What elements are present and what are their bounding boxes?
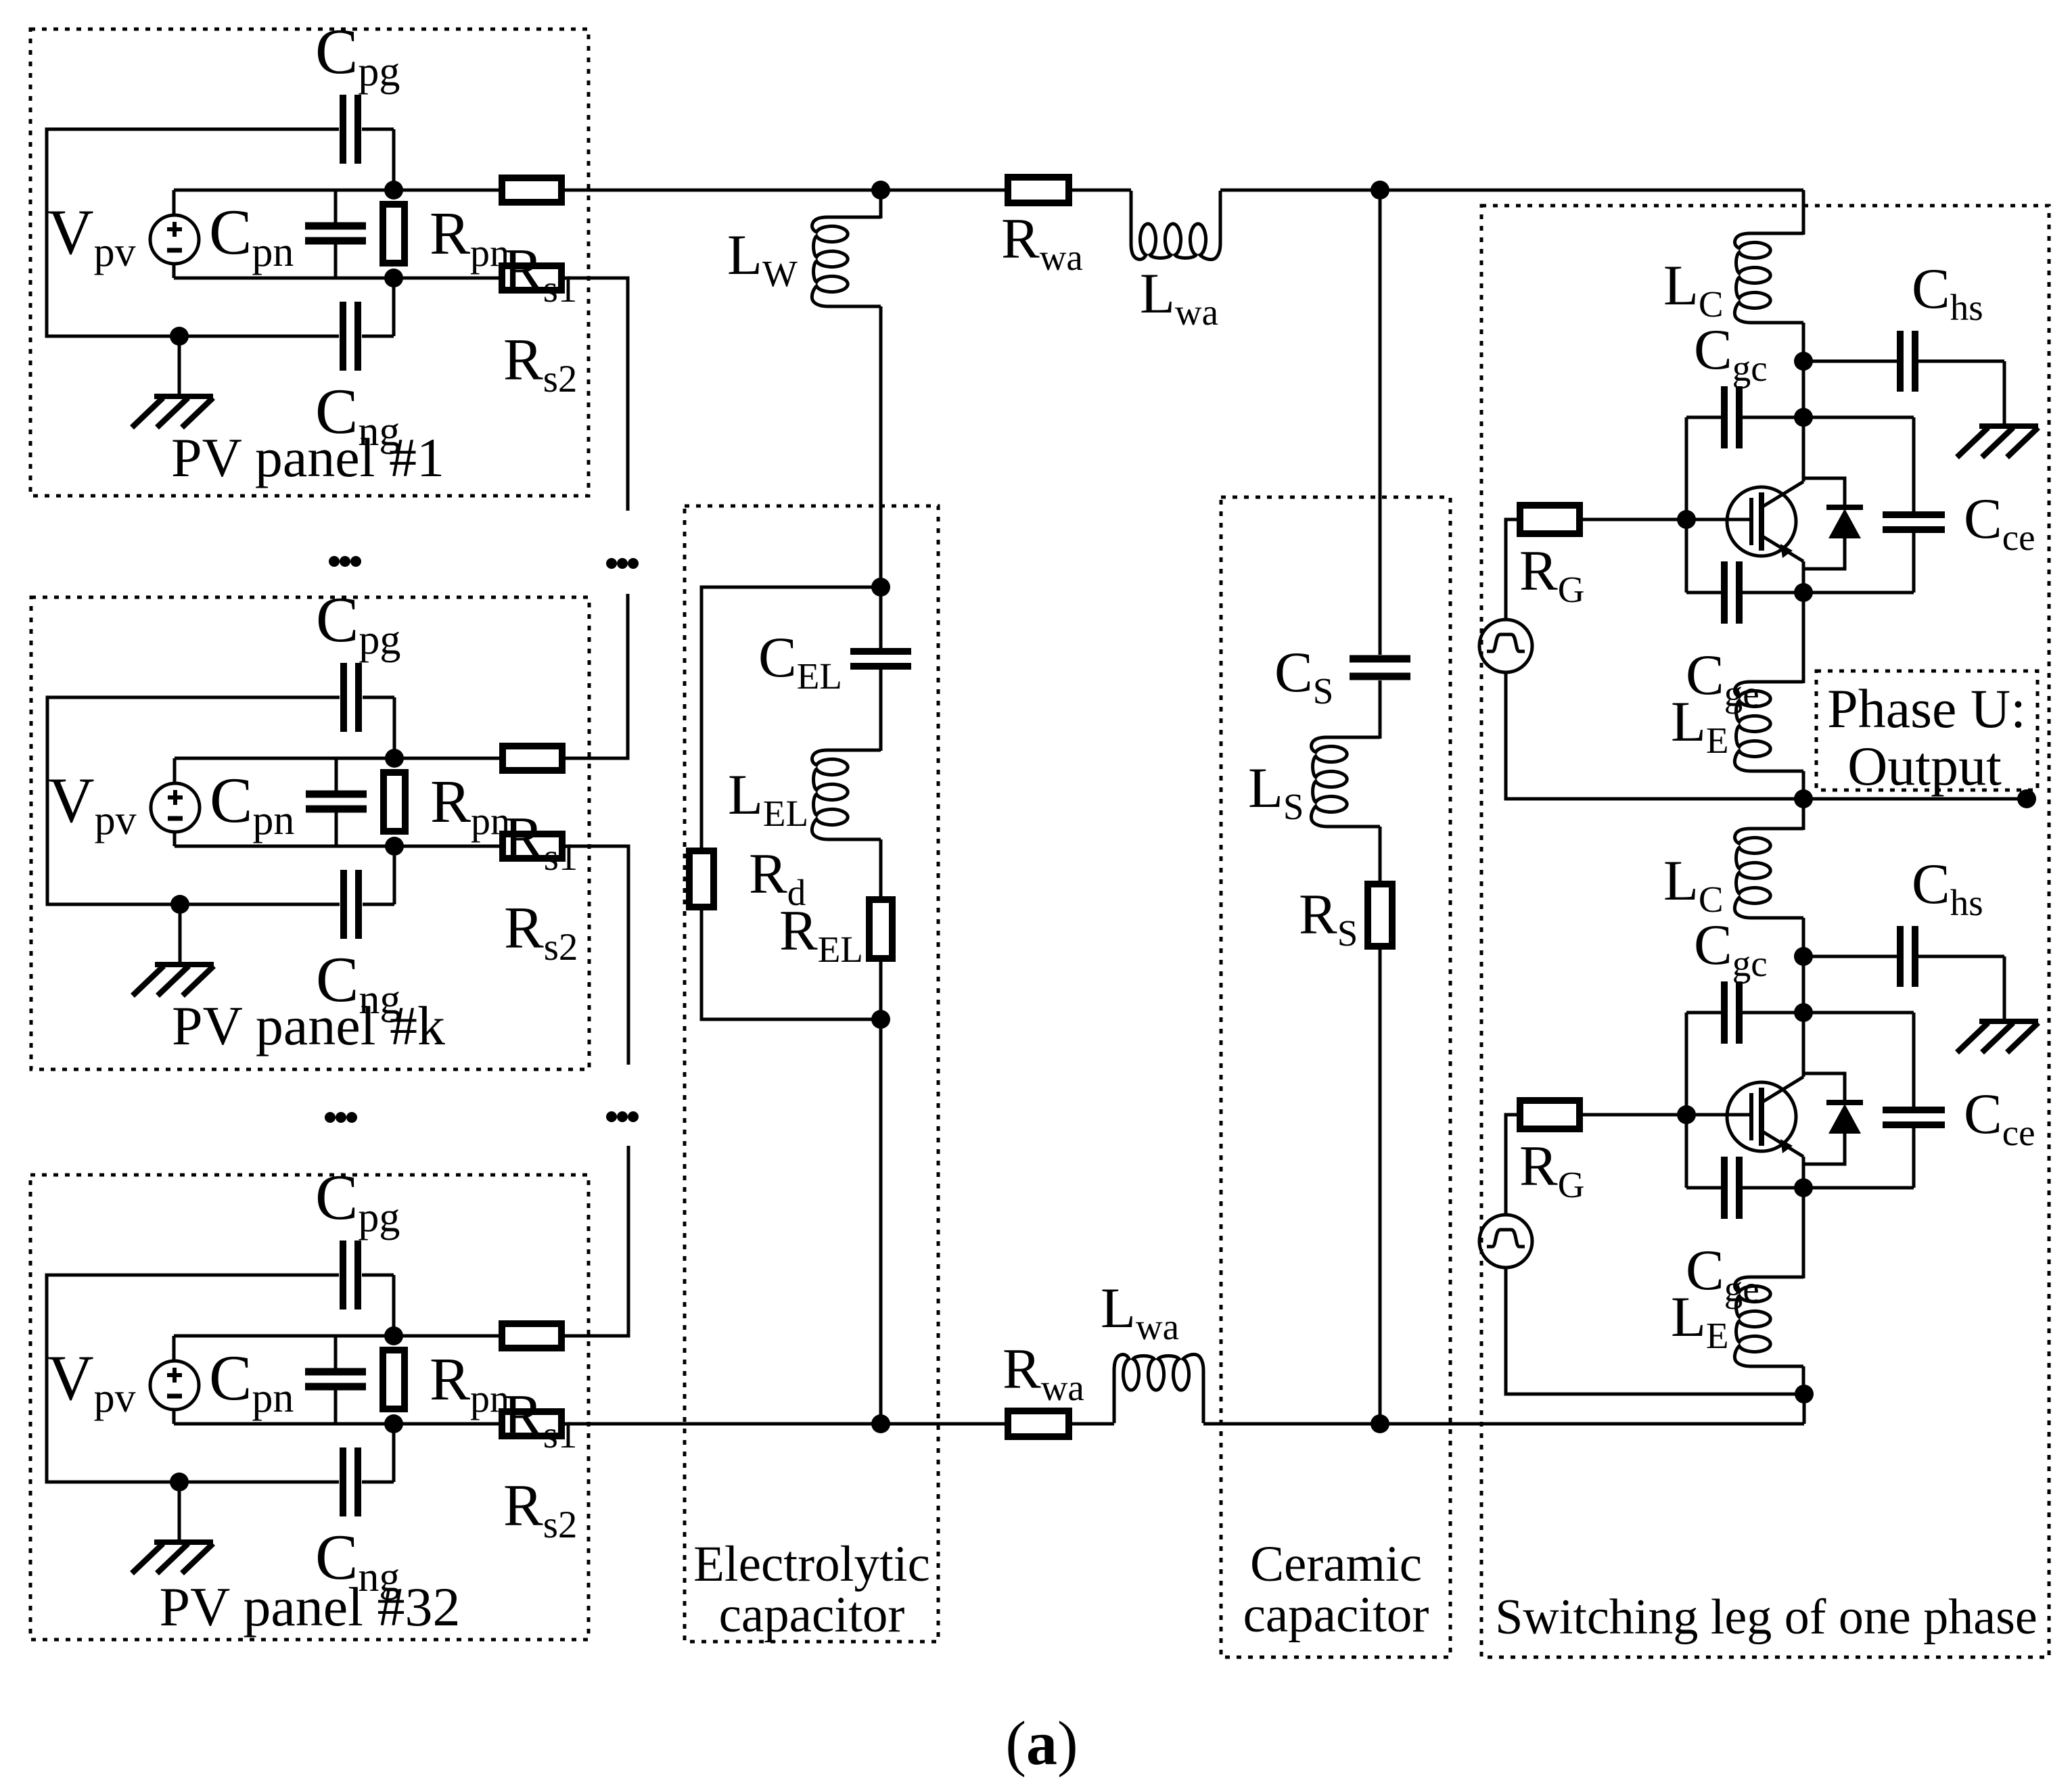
diode freewheel lower (1803, 1073, 1863, 1164)
label Rs2 PV panel #32 (503, 1473, 577, 1546)
wire ceramic top (1379, 190, 1382, 655)
capacitor Cpg PV panel #1 (343, 95, 358, 164)
wire Vpv left branch PV panel #32 (172, 1336, 176, 1424)
label phase U line2 (1847, 735, 2002, 797)
capacitor Chs lower (1900, 926, 1915, 987)
wire cell top side upper (1686, 416, 1914, 419)
label Chs lower (1912, 852, 1983, 923)
inductor LC upper (1734, 233, 1803, 323)
wire top junction to Lw (879, 190, 883, 218)
wire RG left to source lower (1506, 1115, 1520, 1215)
wire output junction to Lc lower (1802, 799, 1805, 830)
wire LE to return junction lower (1802, 1366, 1805, 1394)
label Cpn PV panel #32 (209, 1342, 294, 1421)
voltage source Vpv PV panel #k (151, 783, 200, 832)
ground Chs upper (1957, 426, 2038, 457)
label CEL (758, 626, 842, 697)
node positive rail junction PV panel #1 (384, 181, 403, 200)
svg-text:Phase U:: Phase U: (1827, 678, 2026, 739)
label LE lower (1671, 1285, 1729, 1356)
ground PV panel #32 (132, 1542, 213, 1573)
label Lw (727, 223, 798, 294)
wire chain to panel32 Rs1 (562, 1146, 628, 1336)
inductor Lwa top (1131, 191, 1220, 260)
label Cge lower (1686, 1238, 1759, 1309)
wire Chs ground stem lower (2003, 956, 2006, 1021)
wire panel1 Rs2 to chain (562, 278, 628, 511)
resistor Rs2 PV panel #1 (502, 266, 561, 290)
wire cell bottom side lower (1686, 1186, 1914, 1190)
svg-text:capacitor: capacitor (719, 1587, 905, 1643)
resistor Rpn PV panel #32 (383, 1350, 405, 1409)
capacitor Cce upper (1883, 515, 1945, 530)
wire top corner to Lc (1802, 190, 1805, 235)
wire negative rail PV panel #k (175, 845, 562, 848)
dashed box electrolytic capacitor (685, 506, 938, 1642)
transistor Q2 IGBT lower (1727, 1077, 1803, 1157)
label caption (a) (1005, 1709, 1078, 1778)
label LS (1248, 756, 1304, 827)
capacitor Cpn PV panel #32 (305, 1336, 366, 1424)
node REL bottom junction (871, 1010, 890, 1029)
wire ground stem PV panel #k (179, 904, 182, 965)
label title PV panel #1 (171, 427, 444, 488)
ground PV panel #1 (132, 396, 213, 427)
label RG upper (1519, 539, 1584, 610)
resistor Rwa bottom (1008, 1411, 1069, 1437)
wire emitter lead upper (1802, 561, 1805, 593)
capacitor Cge lower (1724, 1157, 1739, 1219)
svg-text:Electrolytic: Electrolytic (693, 1536, 930, 1592)
inductor LEL (812, 750, 881, 839)
node ground junction PV panel #k (170, 895, 189, 914)
wire Chs upper (1803, 360, 2004, 363)
label Cpg PV panel #32 (315, 1161, 400, 1241)
capacitor Cng PV panel #32 (343, 1447, 358, 1516)
label Rs2 PV panel #1 (503, 327, 577, 400)
label electrolytic line2 (719, 1587, 905, 1643)
inductor LE lower (1734, 1277, 1803, 1366)
wire outer loop PV panel #k (47, 697, 394, 904)
resistor Rs2 PV panel #k (503, 834, 562, 858)
label Cpn PV panel #1 (209, 196, 294, 275)
label LEL (728, 763, 808, 834)
resistor Rpn PV panel #k (384, 772, 405, 831)
resistor RG lower (1520, 1100, 1580, 1129)
resistor Rs1 PV panel #32 (502, 1324, 561, 1348)
transistor Q1 IGBT upper (1727, 482, 1803, 561)
wire Cpg right branch PV panel #k (393, 697, 396, 758)
inductor LE upper (1734, 682, 1803, 771)
label Rpn PV panel #32 (430, 1346, 509, 1420)
node gate junction lower (1677, 1105, 1696, 1124)
svg-text:(a): (a) (1005, 1709, 1078, 1778)
label ceramic line2 (1243, 1587, 1429, 1643)
svg-text:PV panel #1: PV panel #1 (171, 427, 444, 488)
label LE upper (1671, 690, 1729, 761)
wire cell top side lower (1686, 1011, 1914, 1015)
label RS (1299, 883, 1358, 954)
capacitor Cpg PV panel #k (344, 663, 359, 732)
capacitor Cng PV panel #1 (343, 302, 358, 371)
wire collector lead lower (1802, 1013, 1805, 1077)
resistor RG upper (1520, 505, 1580, 534)
wire cell right side lower (1912, 1013, 1916, 1188)
label Rpn PV panel #1 (430, 200, 509, 275)
label Rd (749, 842, 806, 913)
capacitor Cpn PV panel #1 (305, 190, 366, 278)
dots continuation right lower (606, 1111, 639, 1122)
ground Chs lower (1957, 1021, 2038, 1052)
dots continuation left upper (329, 556, 361, 567)
node negative rail junction PV panel #k (385, 837, 404, 856)
wire source to return rail lower (1506, 1268, 1804, 1394)
capacitor Cng PV panel #k (344, 870, 359, 939)
svg-text:capacitor: capacitor (1243, 1587, 1429, 1643)
wire ground stem PV panel #1 (178, 336, 181, 396)
wire emitter to Cge-LE lower (1802, 1188, 1805, 1278)
wire LEL to REL (879, 839, 883, 900)
label Cgc upper (1694, 318, 1768, 389)
label Vpv PV panel #1 (47, 196, 136, 275)
label Chs upper (1912, 257, 1983, 328)
inductor Lwa bottom (1114, 1354, 1203, 1423)
capacitor CS (1350, 659, 1410, 676)
wire outer loop PV panel #1 (47, 129, 394, 336)
wire Vpv left branch PV panel #1 (172, 190, 176, 278)
label Cpg PV panel #1 (315, 16, 400, 95)
wire Lc to Cgc node upper (1802, 323, 1805, 417)
node negative rail junction PV panel #1 (384, 269, 403, 287)
node ground junction PV panel #32 (170, 1473, 189, 1491)
node Cgc-Chs junction upper (1794, 352, 1813, 371)
node ground junction PV panel #1 (170, 327, 189, 346)
resistor Rpn PV panel #1 (383, 204, 405, 263)
capacitor Cpg PV panel #32 (343, 1241, 358, 1309)
node positive rail junction PV panel #32 (384, 1326, 403, 1345)
label LC upper (1663, 254, 1724, 325)
wire Chs ground stem upper (2003, 361, 2006, 426)
wire positive rail PV panel #k (175, 757, 562, 760)
capacitor Cce lower (1883, 1110, 1945, 1125)
wire phase U output (1803, 797, 2027, 801)
label Vpv PV panel #k (48, 764, 137, 843)
inductor LS (1311, 737, 1380, 827)
label Rwa bottom (1003, 1337, 1084, 1408)
wire negative rail PV panel #1 (174, 277, 561, 280)
wire positive rail PV panel #32 (174, 1335, 561, 1338)
label electrolytic line1 (693, 1536, 930, 1592)
wire top main left (562, 189, 1131, 192)
wire RG left to source upper (1506, 519, 1520, 620)
node return junction lower (1795, 1385, 1814, 1404)
node cell bottom junction lower (1794, 1178, 1813, 1197)
wire cell left side lower (1685, 1013, 1688, 1188)
label Cng PV panel #k (316, 944, 400, 1023)
wire return to bottom main (1803, 1394, 1806, 1424)
wire source to output rail upper (1506, 672, 1803, 799)
dashed box PV panel #k (31, 597, 589, 1069)
resistor Rd (689, 851, 714, 907)
svg-text:PV panel #k: PV panel #k (172, 995, 445, 1057)
wire Cpg right branch PV panel #32 (392, 1275, 396, 1336)
capacitor CEL (850, 587, 911, 751)
svg-text:Switching leg of one phase: Switching leg of one phase (1495, 1590, 2038, 1645)
label Lwa top (1140, 262, 1218, 333)
wire panelk Rs2 to chain (562, 846, 628, 1065)
capacitor Chs upper (1900, 331, 1915, 392)
label Cng PV panel #1 (315, 375, 400, 455)
source gate-drive lower (1479, 1215, 1532, 1268)
node output terminal (2017, 789, 2036, 808)
svg-text:PV panel #32: PV panel #32 (160, 1576, 461, 1638)
resistor Rs2 PV panel #32 (502, 1412, 561, 1436)
source gate-drive upper (1479, 620, 1532, 672)
label Rs2 PV panel #k (504, 896, 578, 969)
wire LS to RS (1379, 827, 1382, 884)
wire cell right side upper (1912, 417, 1916, 593)
resistor Rs1 PV panel #1 (502, 178, 561, 202)
node cell bottom junction upper (1794, 583, 1813, 602)
wire bottom main right (1203, 1422, 1804, 1426)
label ceramic line1 (1250, 1536, 1422, 1592)
svg-text:Output: Output (1847, 735, 2002, 797)
wire gate upper (1580, 518, 1751, 521)
wire gate lower (1580, 1113, 1751, 1117)
label Cce upper (1964, 487, 2035, 558)
label title PV panel #32 (160, 1576, 461, 1638)
label Cge upper (1686, 643, 1759, 714)
wire electrolytic to bottom (879, 958, 883, 1424)
wire Chs lower (1803, 955, 2004, 958)
label phase U line1 (1827, 678, 2026, 739)
label Rwa top (1001, 207, 1083, 278)
dots continuation right upper (606, 558, 639, 569)
wire bottom main left (561, 1422, 1114, 1426)
node positive rail junction PV panel #k (385, 749, 404, 768)
resistor REL (869, 900, 892, 958)
node gate junction upper (1677, 510, 1696, 529)
label Cce lower (1964, 1082, 2035, 1153)
wire Cng right branch PV panel #k (393, 846, 396, 904)
label Cpn PV panel #k (210, 764, 294, 843)
dashed box PV panel #32 (30, 1175, 589, 1640)
resistor Rwa top (1008, 177, 1069, 203)
node cell top junction upper (1794, 408, 1813, 427)
node junction bottom electrolytic branch (871, 1414, 890, 1433)
svg-text:Ceramic: Ceramic (1250, 1536, 1422, 1592)
label Cpg PV panel #k (316, 584, 400, 663)
wire positive rail PV panel #1 (174, 189, 561, 192)
dashed box PV panel #1 (30, 29, 589, 496)
resistor Rs1 PV panel #k (503, 746, 562, 770)
wire emitter to Cge-LE upper (1802, 593, 1805, 683)
label Rs1 PV panel #k (504, 806, 578, 879)
node CEL top junction (871, 578, 890, 597)
label Cgc lower (1694, 913, 1768, 984)
capacitor Cpn PV panel #k (306, 758, 367, 846)
resistor RS (1368, 884, 1392, 946)
wire cell left side upper (1685, 417, 1688, 593)
label Cng PV panel #32 (315, 1521, 400, 1600)
label Rpn PV panel #k (430, 768, 510, 843)
label LC lower (1663, 849, 1724, 920)
label title PV panel #k (172, 995, 445, 1057)
capacitor Cgc lower (1724, 981, 1739, 1044)
dashed box phase U output (1816, 671, 2038, 790)
voltage source Vpv PV panel #1 (150, 215, 199, 264)
wire cell bottom side upper (1686, 591, 1914, 595)
wire ground stem PV panel #32 (178, 1482, 181, 1542)
label Lwa bottom (1101, 1276, 1179, 1347)
dots continuation left lower (325, 1112, 357, 1123)
label Vpv PV panel #32 (47, 1342, 136, 1421)
node junction top ceramic branch (1371, 181, 1389, 200)
ground PV panel #k (133, 965, 214, 996)
wire RS to bottom (1379, 946, 1382, 1424)
node cell top junction lower (1794, 1003, 1813, 1022)
wire Lw to CEL node (879, 306, 883, 587)
wire Cng right branch PV panel #1 (392, 278, 396, 336)
wire LE to output junction upper (1802, 771, 1805, 799)
wire outer loop PV panel #32 (47, 1275, 394, 1482)
wire Vpv left branch PV panel #k (173, 758, 177, 846)
wire negative rail PV panel #32 (174, 1422, 561, 1426)
wire Lc to Cgc node lower (1802, 918, 1805, 1013)
node junction top electrolytic branch (871, 181, 890, 200)
wire top main right (1220, 189, 1803, 192)
dashed box ceramic capacitor (1221, 497, 1450, 1657)
capacitor Cgc upper (1724, 386, 1739, 448)
wire Cng right branch PV panel #32 (392, 1424, 396, 1482)
node Cgc-Chs junction lower (1794, 947, 1813, 966)
node junction bottom ceramic branch (1371, 1414, 1389, 1433)
voltage source Vpv PV panel #32 (150, 1361, 199, 1410)
wire Rd branch bottom (701, 907, 881, 1019)
diode freewheel upper (1803, 478, 1863, 569)
capacitor Cge upper (1724, 561, 1739, 624)
wire emitter lead lower (1802, 1157, 1805, 1188)
wire Rd branch top (701, 587, 881, 851)
inductor Lw (812, 217, 881, 306)
dashed box switching leg (1481, 206, 2049, 1657)
node output junction (1794, 789, 1813, 808)
wire CS to LS (1379, 680, 1382, 739)
wire collector lead upper (1802, 417, 1805, 482)
label switching leg (1495, 1590, 2038, 1645)
node negative rail junction PV panel #32 (384, 1414, 403, 1433)
label Rs1 PV panel #32 (503, 1383, 577, 1456)
wire chain to panelk Rs1 (562, 594, 628, 758)
label Rs1 PV panel #1 (503, 237, 577, 310)
wire Cpg right branch PV panel #1 (392, 129, 396, 190)
label CS (1274, 641, 1333, 712)
inductor LC lower (1734, 829, 1803, 918)
label RG lower (1519, 1134, 1584, 1205)
label REL (779, 899, 863, 970)
